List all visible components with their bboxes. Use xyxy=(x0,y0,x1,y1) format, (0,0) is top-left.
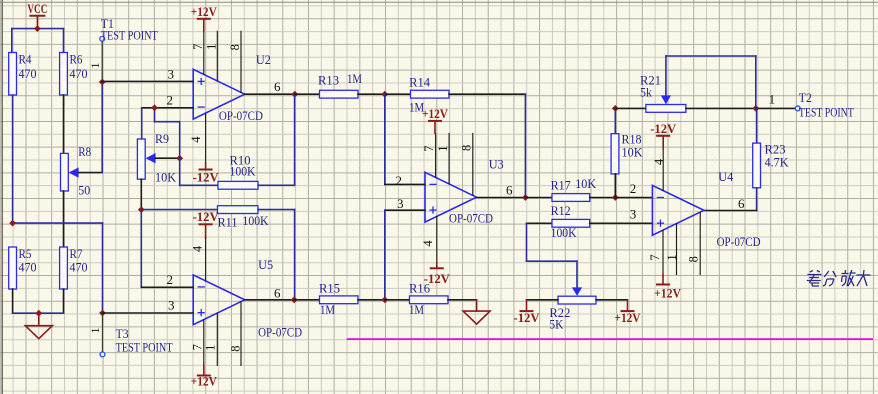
svg-text:1: 1 xyxy=(203,345,217,351)
svg-text:+12V: +12V xyxy=(615,310,642,325)
svg-text:470: 470 xyxy=(70,66,88,81)
svg-text:10K: 10K xyxy=(622,145,644,160)
svg-text:-12V: -12V xyxy=(514,310,541,325)
svg-text:R17: R17 xyxy=(551,178,571,193)
svg-text:8: 8 xyxy=(228,44,242,50)
svg-text:1: 1 xyxy=(665,254,679,260)
svg-text:6: 6 xyxy=(506,183,513,198)
svg-text:OP-07CD: OP-07CD xyxy=(258,325,302,340)
svg-text:3: 3 xyxy=(168,298,175,313)
svg-text:U2: U2 xyxy=(256,52,271,67)
svg-text:OP-07CD: OP-07CD xyxy=(449,211,493,226)
svg-text:4.7K: 4.7K xyxy=(765,155,790,170)
svg-text:5K: 5K xyxy=(549,317,564,332)
svg-text:R12: R12 xyxy=(551,203,571,218)
svg-text:470: 470 xyxy=(19,260,37,275)
svg-text:3: 3 xyxy=(630,206,637,221)
svg-text:2: 2 xyxy=(167,93,174,108)
svg-text:1: 1 xyxy=(205,44,219,50)
svg-text:OP-07CD: OP-07CD xyxy=(219,108,263,123)
svg-text:R14: R14 xyxy=(409,75,430,90)
svg-text:TEST POINT: TEST POINT xyxy=(799,104,854,119)
svg-text:8: 8 xyxy=(460,145,474,151)
svg-text:R13: R13 xyxy=(318,73,339,88)
svg-text:100K: 100K xyxy=(551,225,578,240)
svg-text:7: 7 xyxy=(422,145,436,151)
svg-text:8: 8 xyxy=(687,256,701,262)
svg-text:4: 4 xyxy=(652,158,666,165)
svg-text:2: 2 xyxy=(630,181,637,196)
svg-text:TEST POINT: TEST POINT xyxy=(116,339,173,354)
svg-text:7: 7 xyxy=(191,44,205,50)
svg-text:1: 1 xyxy=(88,328,102,334)
svg-text:+12V: +12V xyxy=(191,4,218,19)
svg-text:-12V: -12V xyxy=(193,209,220,224)
svg-text:6: 6 xyxy=(738,196,745,211)
svg-text:4: 4 xyxy=(421,240,435,247)
svg-text:8: 8 xyxy=(228,345,242,351)
svg-text:1M: 1M xyxy=(409,302,424,317)
svg-text:100K: 100K xyxy=(230,164,257,179)
svg-text:U5: U5 xyxy=(258,257,273,272)
svg-text:10K: 10K xyxy=(155,170,177,185)
svg-text:R4: R4 xyxy=(19,52,32,67)
svg-text:50: 50 xyxy=(78,183,90,198)
svg-text:4: 4 xyxy=(189,136,203,143)
svg-text:10K: 10K xyxy=(575,176,597,191)
svg-text:U3: U3 xyxy=(489,157,504,172)
svg-text:7: 7 xyxy=(648,254,662,260)
svg-text:OP-07CD: OP-07CD xyxy=(717,234,761,249)
svg-text:1M: 1M xyxy=(320,302,335,317)
svg-text:-12V: -12V xyxy=(650,121,677,136)
svg-text:4: 4 xyxy=(191,245,205,252)
svg-text:TEST POINT: TEST POINT xyxy=(101,28,158,43)
svg-text:2: 2 xyxy=(167,272,174,287)
svg-text:+12V: +12V xyxy=(191,374,218,389)
svg-text:1M: 1M xyxy=(347,71,362,86)
svg-text:6: 6 xyxy=(274,79,281,94)
svg-text:470: 470 xyxy=(19,66,37,81)
svg-text:+12V: +12V xyxy=(654,286,682,301)
svg-text:R9: R9 xyxy=(155,131,169,146)
svg-text:U4: U4 xyxy=(718,169,733,184)
svg-text:VCC: VCC xyxy=(27,1,47,16)
svg-text:1: 1 xyxy=(769,92,776,107)
svg-text:1: 1 xyxy=(88,63,102,69)
svg-text:R8: R8 xyxy=(78,144,91,159)
svg-text:-12V: -12V xyxy=(193,170,220,185)
svg-text:R11: R11 xyxy=(218,215,238,230)
svg-text:R6: R6 xyxy=(70,52,83,67)
svg-text:R15: R15 xyxy=(319,281,340,296)
svg-text:5k: 5k xyxy=(640,85,652,100)
svg-text:1: 1 xyxy=(436,145,450,151)
svg-text:470: 470 xyxy=(70,260,88,275)
svg-text:6: 6 xyxy=(274,285,281,300)
svg-text:100K: 100K xyxy=(243,213,270,228)
svg-text:T2: T2 xyxy=(799,90,812,105)
svg-text:3: 3 xyxy=(168,67,175,82)
svg-text:2: 2 xyxy=(396,173,403,188)
svg-text:+12V: +12V xyxy=(422,106,449,121)
svg-text:R16: R16 xyxy=(409,281,430,296)
svg-text:3: 3 xyxy=(397,196,404,211)
